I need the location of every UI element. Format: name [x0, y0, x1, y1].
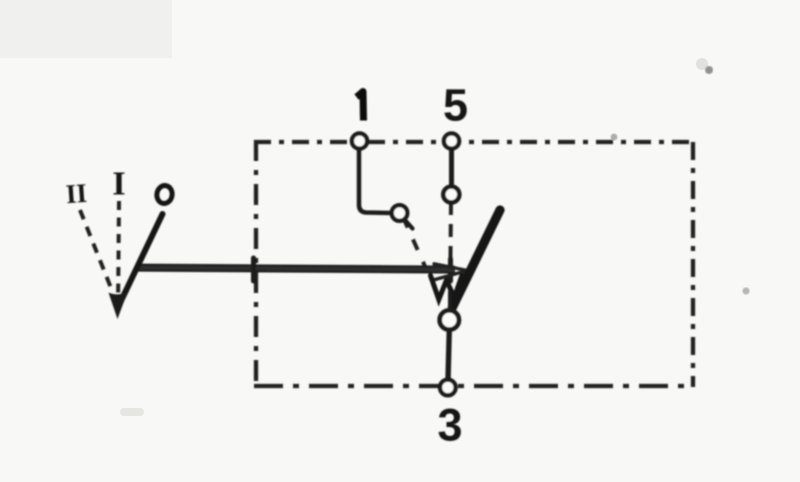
enclosure dash-dot boundary box: [254, 140, 693, 144]
arrowhead V (left) above pivot contact: [431, 276, 447, 300]
short dash into pivot circle: [448, 293, 452, 306]
terminal circle 5: [444, 133, 459, 148]
dashed travel line from contact K1 to pivot: [403, 217, 436, 291]
arrowhead at right end of actuator bar: [434, 264, 468, 280]
switch lever (right, thick blade): [452, 210, 500, 308]
wire pivot contact to terminal 3: [448, 329, 449, 380]
terminal circle 1: [352, 133, 367, 148]
dashed line from II down to pivot: [80, 210, 113, 293]
actuator bar (horizontal link rod): [138, 268, 455, 270]
svg-text:II: II: [65, 178, 88, 209]
dashed line from I down to pivot tip: [118, 201, 119, 311]
wire from terminal 5 down to contact K5: [449, 148, 454, 187]
scan noise specks: [705, 66, 713, 74]
pivot contact circle: [440, 310, 459, 329]
contact circle K1: [392, 205, 408, 221]
contact circle K5: [443, 187, 459, 203]
label terminal 1 (drawn stroke): [357, 92, 364, 121]
junction on dashed line at actuator bar crossing: [448, 259, 453, 281]
arrowhead on control lever tip: [109, 292, 128, 319]
terminal circle 3: [440, 380, 456, 396]
junction blob where bar crosses left boundary: [251, 258, 256, 281]
position label 0: [156, 185, 174, 205]
svg-text:3: 3: [437, 400, 462, 451]
wire from terminal 1 down with bend to contact K1: [359, 149, 391, 213]
tail dash from contact K1: [405, 220, 413, 229]
control lever (left): [121, 214, 163, 302]
svg-text:5: 5: [443, 80, 468, 131]
dashed travel line from contact K5 down to pivot: [450, 202, 451, 307]
arrowhead V (right) above pivot contact: [447, 276, 462, 298]
svg-text:I: I: [112, 166, 125, 203]
